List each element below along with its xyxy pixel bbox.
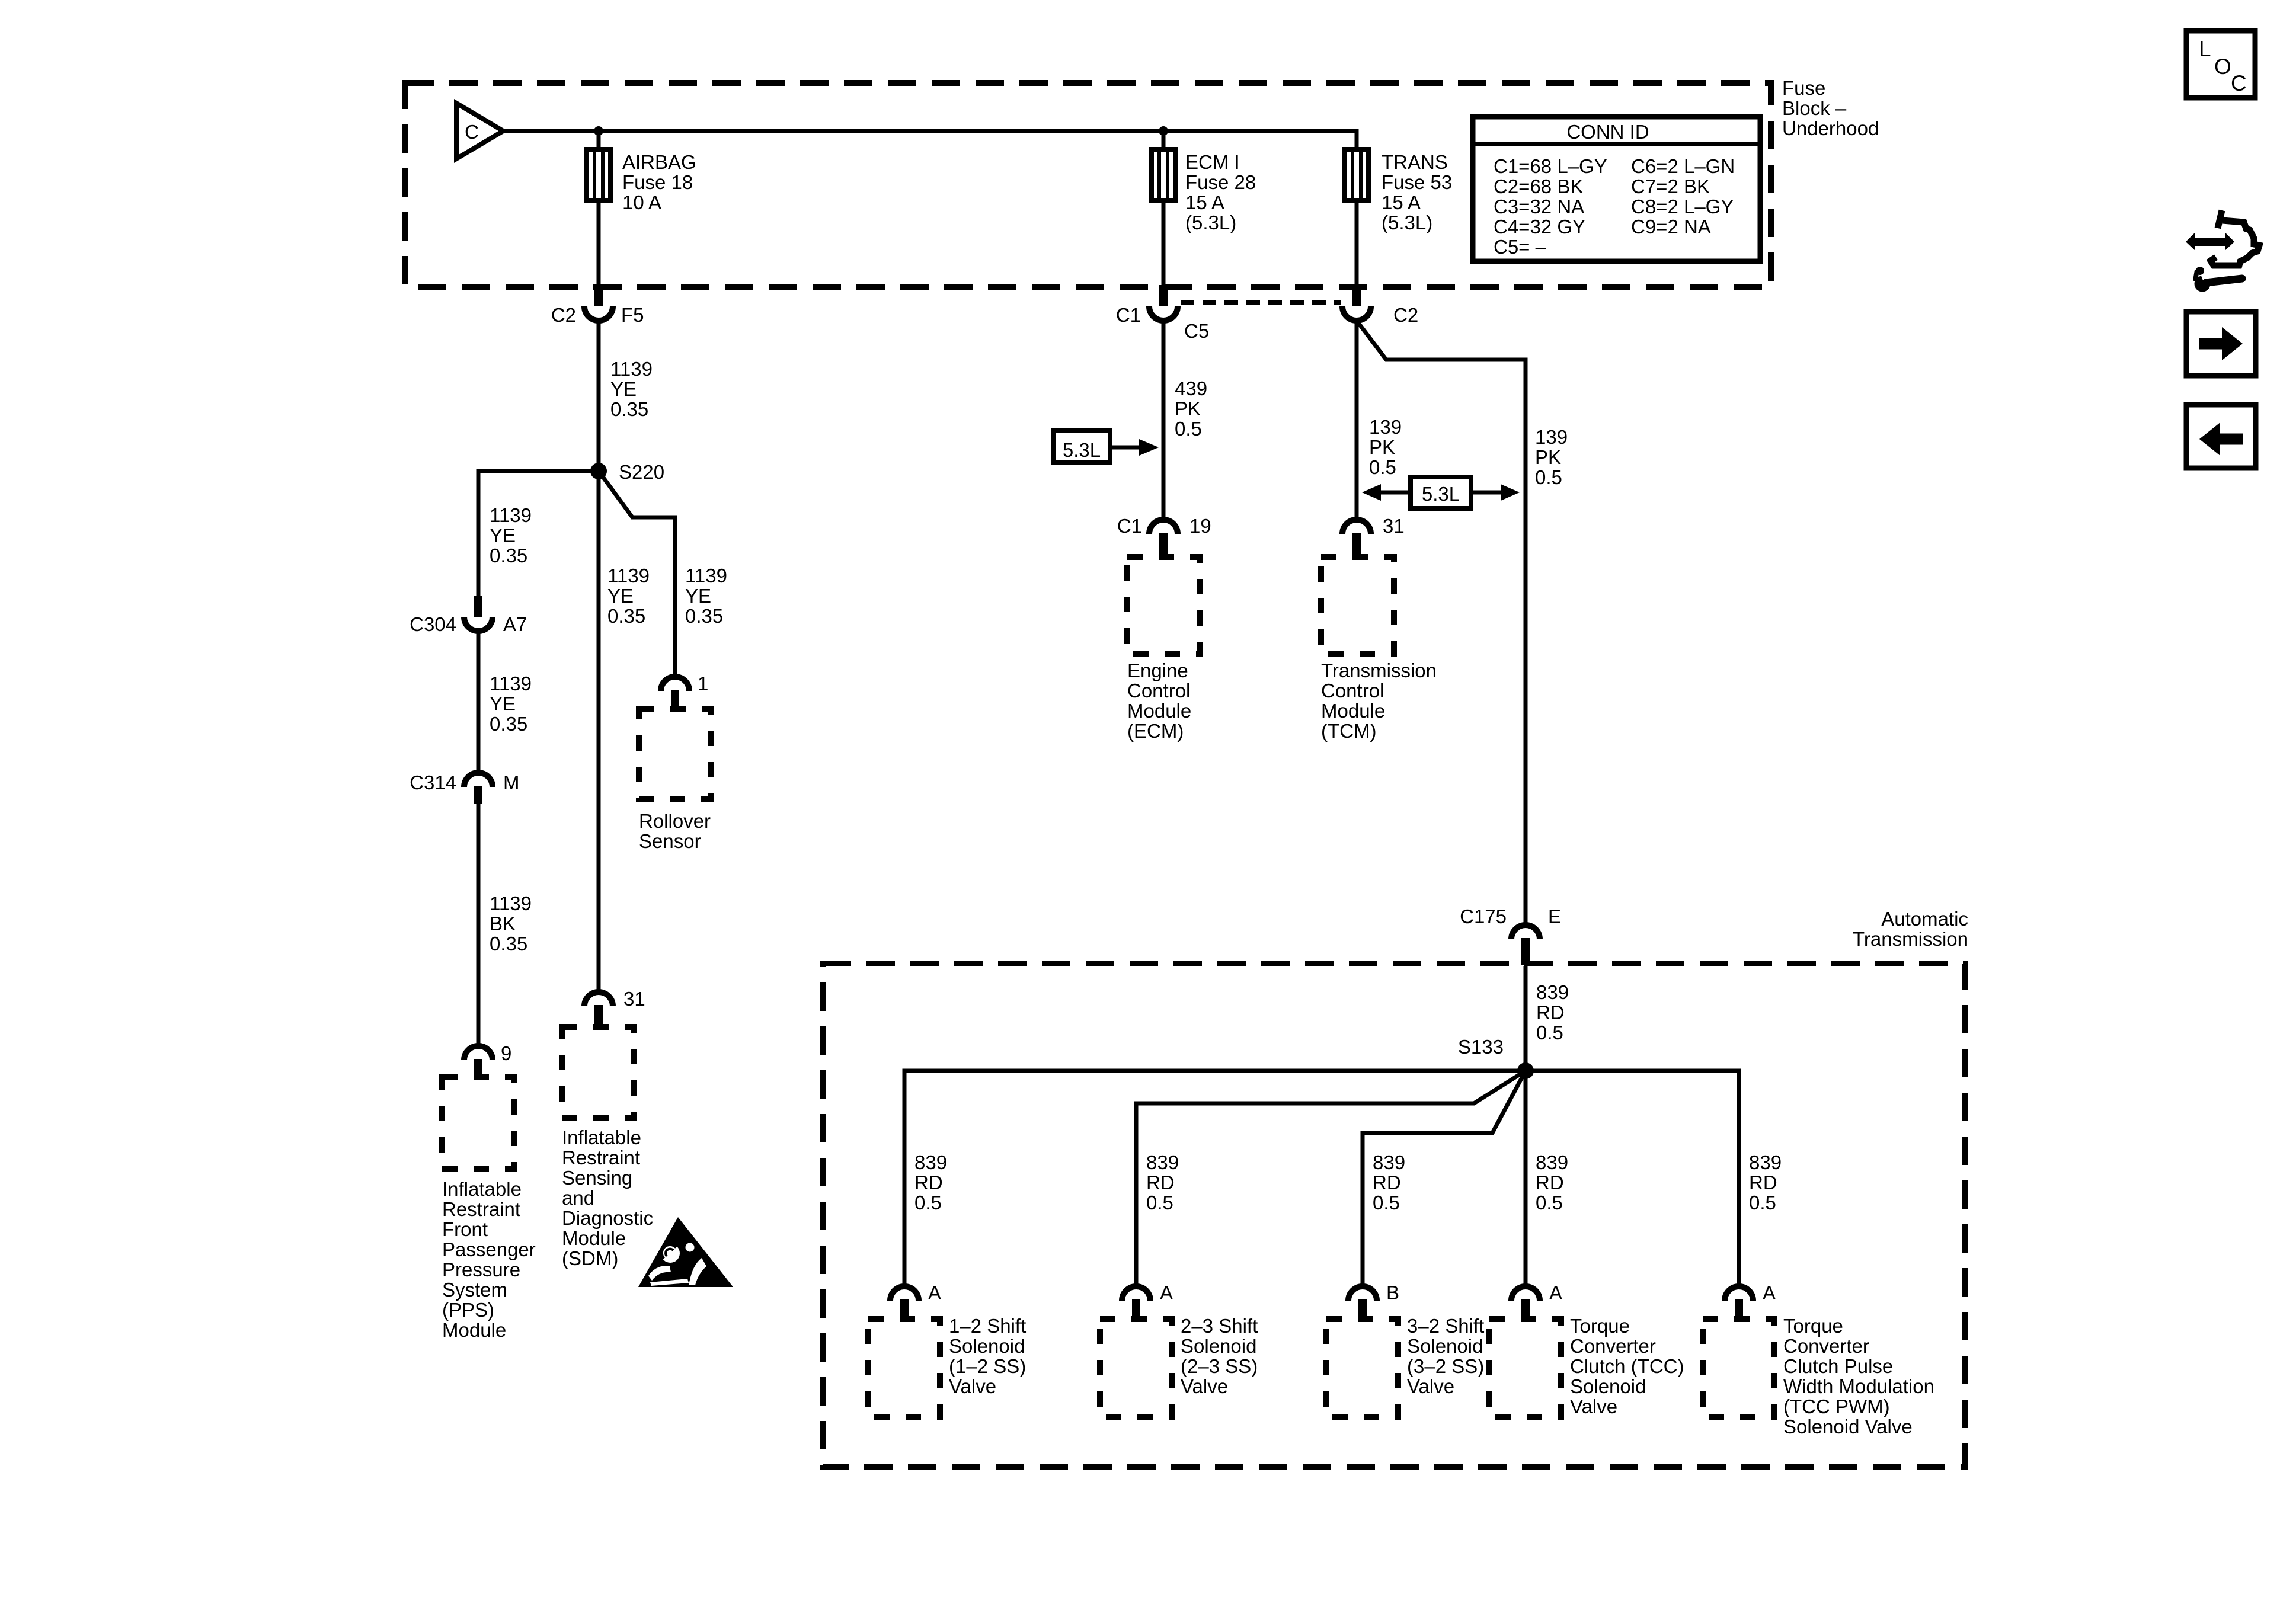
- wire: 139 PK from C2 down to C175 pin E: [1358, 323, 1526, 925]
- connector C2 pin F5 (fuse block bottom): [584, 285, 613, 321]
- wire: TRANS fuse to connector C2: [1355, 200, 1359, 285]
- SIR caution triangle icon: [638, 1217, 733, 1287]
- svg-text:O: O: [2214, 55, 2231, 79]
- module box: TCC solenoid valve: [1489, 1319, 1561, 1417]
- wire: S133 to 3-2 shift solenoid pin B: [1363, 1071, 1526, 1286]
- svg-text:31: 31: [623, 988, 645, 1010]
- svg-text:C175: C175: [1460, 905, 1507, 927]
- module box: Inflatable Restraint Front Passenger Pressure System (PPS) Module: [442, 1077, 514, 1169]
- connector pin 31 (SDM): [584, 992, 613, 1026]
- wire: S220 to SDM pin 31: [597, 471, 601, 992]
- wire: S133 to 1-2 shift solenoid pin A: [904, 1071, 1526, 1286]
- wire: 139 PK from C2 to TCM pin 31: [1355, 321, 1359, 520]
- connector pin 1 (rollover sensor): [661, 677, 689, 708]
- connector C1 pin 19 (ECM): [1149, 520, 1178, 556]
- module box: Inflatable Restraint Sensing and Diagnostic Module (SDM): [562, 1027, 634, 1118]
- wire: 439 PK from C1 to ECM pin 19: [1162, 321, 1166, 520]
- svg-text:B: B: [1386, 1282, 1399, 1304]
- module box: TCC PWM solenoid valve: [1703, 1319, 1774, 1417]
- svg-text:C1: C1: [1117, 515, 1142, 537]
- fuse ECM I Fuse 28 15 A: [1152, 149, 1175, 200]
- svg-text:A: A: [1160, 1282, 1173, 1304]
- svg-text:C: C: [465, 121, 479, 143]
- connector C304 pin A7: [464, 596, 493, 631]
- module box: Engine Control Module (ECM): [1127, 557, 1200, 654]
- svg-text:M: M: [503, 772, 520, 793]
- callout: 5.3L arrow to 439 PK wire: [1054, 431, 1159, 463]
- connector pin A (TCC PWM solenoid valve): [1725, 1286, 1753, 1319]
- svg-text:C314: C314: [410, 772, 456, 793]
- svg-text:L: L: [2199, 37, 2211, 61]
- module box: Rollover Sensor: [639, 709, 711, 799]
- svg-text:EngineControlModule(ECM): EngineControlModule(ECM): [1127, 660, 1191, 742]
- svg-text:5.3L: 5.3L: [1422, 483, 1460, 505]
- dashed link C5 between connectors C1 and C2: [1181, 300, 1341, 305]
- wire: feed bus from triangle C to TRANS fuse 53: [503, 131, 1357, 149]
- icon: powertrain/wrench glyph: [2186, 210, 2259, 292]
- wire: ECM I fuse to connector C1: [1162, 200, 1166, 285]
- svg-text:F5: F5: [621, 304, 644, 326]
- svg-text:5.3L: 5.3L: [1063, 439, 1101, 461]
- wire: 839 RD from C175 to splice S133: [1524, 966, 1528, 1071]
- connector C175 pin E: [1511, 925, 1540, 965]
- splice S220: [590, 463, 607, 479]
- connector pin A (2-3 shift solenoid valve): [1122, 1286, 1150, 1319]
- junction: bus tap to AIRBAG fuse: [594, 126, 603, 136]
- icon: back arrow box: [2186, 405, 2256, 468]
- connector C2 (fuse block bottom right): [1342, 285, 1371, 321]
- connector triangle C (power feed): [456, 103, 503, 159]
- module box: Transmission Control Module (TCM): [1321, 557, 1394, 654]
- module box: 1-2 shift solenoid valve: [868, 1319, 940, 1417]
- wire: S220 left branch to C304: [478, 471, 599, 596]
- svg-text:A: A: [928, 1282, 941, 1304]
- connector pin 9 (PPS module): [464, 1046, 493, 1076]
- wire: S220 to rollover sensor pin 1: [599, 471, 675, 677]
- svg-text:C1: C1: [1116, 304, 1141, 326]
- connector pin B (3-2 shift solenoid valve): [1348, 1286, 1377, 1319]
- connector C1 (fuse block bottom): [1149, 285, 1178, 321]
- svg-text:19: 19: [1189, 515, 1211, 537]
- svg-text:C5: C5: [1184, 320, 1209, 342]
- svg-text:C: C: [2231, 71, 2247, 95]
- svg-text:RolloverSensor: RolloverSensor: [639, 810, 711, 852]
- wire: C304 to C314: [477, 631, 481, 773]
- wire: bus to ECM I fuse 28: [1162, 131, 1166, 149]
- wire: 1139 YE from C2/F5 to splice S220: [597, 321, 601, 471]
- svg-text:E: E: [1548, 905, 1561, 927]
- module box: 3-2 shift solenoid valve: [1326, 1319, 1398, 1417]
- connector pin A (1-2 shift solenoid valve): [890, 1286, 919, 1319]
- svg-text:C304: C304: [410, 613, 456, 635]
- svg-text:9: 9: [501, 1042, 511, 1064]
- icon: LOC box: [2186, 31, 2255, 98]
- module box: 2-3 shift solenoid valve: [1100, 1319, 1172, 1417]
- svg-text:S133: S133: [1458, 1036, 1504, 1058]
- fuse TRANS Fuse 53 15 A: [1345, 149, 1368, 200]
- splice S133: [1517, 1062, 1534, 1079]
- connector pin 31 (TCM): [1342, 520, 1371, 556]
- wire: S133 to TCC solenoid pin A: [1524, 1071, 1528, 1286]
- connector pin A (TCC solenoid valve): [1511, 1286, 1540, 1319]
- fuse AIRBAG Fuse 18 10 A: [587, 149, 610, 200]
- svg-text:31: 31: [1383, 515, 1405, 537]
- wire: bus to AIRBAG fuse 18: [597, 131, 601, 149]
- svg-text:C2: C2: [551, 304, 576, 326]
- connector C314 pin M: [464, 773, 493, 804]
- fuse block - underhood (dashed enclosure): [405, 83, 1771, 287]
- callout: 5.3L double arrow: [1362, 477, 1520, 508]
- junction: bus tap to ECM I fuse: [1159, 126, 1168, 136]
- icon: forward arrow box: [2186, 312, 2256, 376]
- svg-text:A: A: [1763, 1282, 1776, 1304]
- wire: AIRBAG fuse to connector C2 pin F5: [597, 200, 601, 285]
- automatic transmission (dashed enclosure): [823, 964, 1965, 1467]
- CONN ID table: [1473, 117, 1760, 261]
- svg-text:A7: A7: [503, 613, 527, 635]
- wire: S133 to 2-3 shift solenoid pin A: [1136, 1071, 1526, 1286]
- wire: 1139 BK from C314 to PPS module: [477, 804, 481, 1046]
- wire: S133 to TCC PWM solenoid pin A: [1526, 1071, 1739, 1286]
- svg-text:A: A: [1549, 1282, 1562, 1304]
- svg-text:1: 1: [698, 673, 708, 694]
- svg-text:CONN ID: CONN ID: [1566, 121, 1649, 143]
- svg-text:C2: C2: [1393, 304, 1418, 326]
- svg-text:S220: S220: [619, 461, 664, 483]
